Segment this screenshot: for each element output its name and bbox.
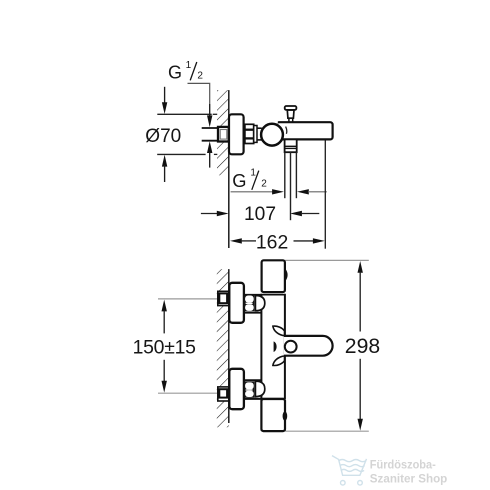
spout dark D mark (front view): [274, 341, 277, 352]
svg-text:Ø70: Ø70: [145, 126, 181, 147]
extension line top inlet centre (150 top): [158, 298, 218, 300]
escutcheon (side view): [229, 114, 244, 154]
top inlet square nut (front view): [218, 291, 229, 305]
leader G 1/2 (top): [188, 83, 213, 127]
svg-text:G: G: [232, 170, 246, 191]
dimension 107: [201, 204, 319, 225]
wall hatching (front view): [217, 269, 229, 427]
extension line top of escutcheon (Ø70 top): [157, 113, 217, 115]
dimension 150±15: [133, 300, 196, 393]
bottom union boundary lines (front view): [244, 379, 261, 381]
extension line mixer top (298 top): [285, 259, 369, 261]
wall hatching (side view): [217, 90, 229, 175]
hose outlet dark bump (front view): [283, 411, 288, 420]
bottom outlet block (front view): [261, 399, 285, 431]
wall union square nut (side view): [218, 127, 229, 142]
extension line spout end (162 right): [324, 140, 326, 248]
spout bottom ear (front view): [273, 356, 285, 366]
top escutcheon (front view): [229, 283, 244, 323]
svg-text:2: 2: [197, 70, 203, 81]
bottom union hex nut (front view): [244, 381, 254, 397]
svg-text:Szaniter Shop: Szaniter Shop: [370, 472, 448, 485]
extension line bottom of escutcheon (Ø70 bottom): [157, 153, 217, 155]
mixer body (side view): [277, 122, 333, 139]
logo shopping cart icon: [332, 456, 367, 486]
spout top ear (front view): [273, 326, 285, 336]
label G 1/2 (top): [168, 60, 203, 83]
aerator circle (front view): [285, 341, 297, 353]
patch hiding body corner behind handle (side view): [270, 121, 278, 124]
top union boundary lines (front view): [244, 295, 261, 313]
supply pipe stub (side view): [202, 128, 219, 141]
svg-text:150±15: 150±15: [133, 337, 196, 359]
extension line mixer bottom (298 bottom): [285, 430, 369, 432]
top union dome (front view): [255, 296, 264, 311]
bath spout capsule (front view): [284, 336, 333, 356]
svg-text:162: 162: [256, 231, 288, 253]
extension line bottom inlet centre (150 bottom): [158, 392, 218, 394]
dimension line G 1/2 (hose thread): [231, 189, 327, 194]
union collar (side view): [254, 126, 257, 143]
thermostat handle circle (side view): [261, 124, 283, 146]
dimension Ø70 arrows: [162, 87, 167, 182]
hose connector block (side view): [285, 139, 297, 152]
wall face line (front view): [228, 269, 230, 423]
svg-text:298: 298: [345, 335, 380, 358]
svg-text:107: 107: [244, 204, 276, 225]
bottom union dome (front view): [255, 381, 264, 396]
dimension 162: [230, 231, 325, 253]
shower hose lines (side view): [285, 152, 297, 220]
svg-text:Fürdöszoba-: Fürdöszoba-: [370, 458, 436, 471]
label G 1/2 (bottom): [232, 168, 267, 192]
diverter knob (side view): [285, 106, 297, 122]
svg-text:2: 2: [261, 179, 267, 190]
dimension 298: [345, 261, 380, 431]
top union hex nut (front view): [244, 295, 254, 312]
svg-text:1: 1: [250, 168, 256, 179]
wall face line (side view): [228, 90, 230, 248]
union nut knurled (side view): [245, 124, 254, 143]
arrow G 1/2 bottom (pipe underside): [207, 141, 212, 167]
svg-text:1: 1: [186, 60, 192, 71]
bottom escutcheon (front view): [229, 369, 244, 409]
bottom cap separation line (front view): [244, 398, 285, 400]
mixer body column (front view): [261, 294, 285, 399]
handle cap (front view top): [262, 260, 287, 294]
body shading arc (side view): [286, 127, 287, 134]
union pipe stubs to handle (side view): [257, 127, 262, 129]
svg-text:G: G: [168, 63, 182, 83]
bottom inlet square nut (front view): [218, 387, 229, 401]
